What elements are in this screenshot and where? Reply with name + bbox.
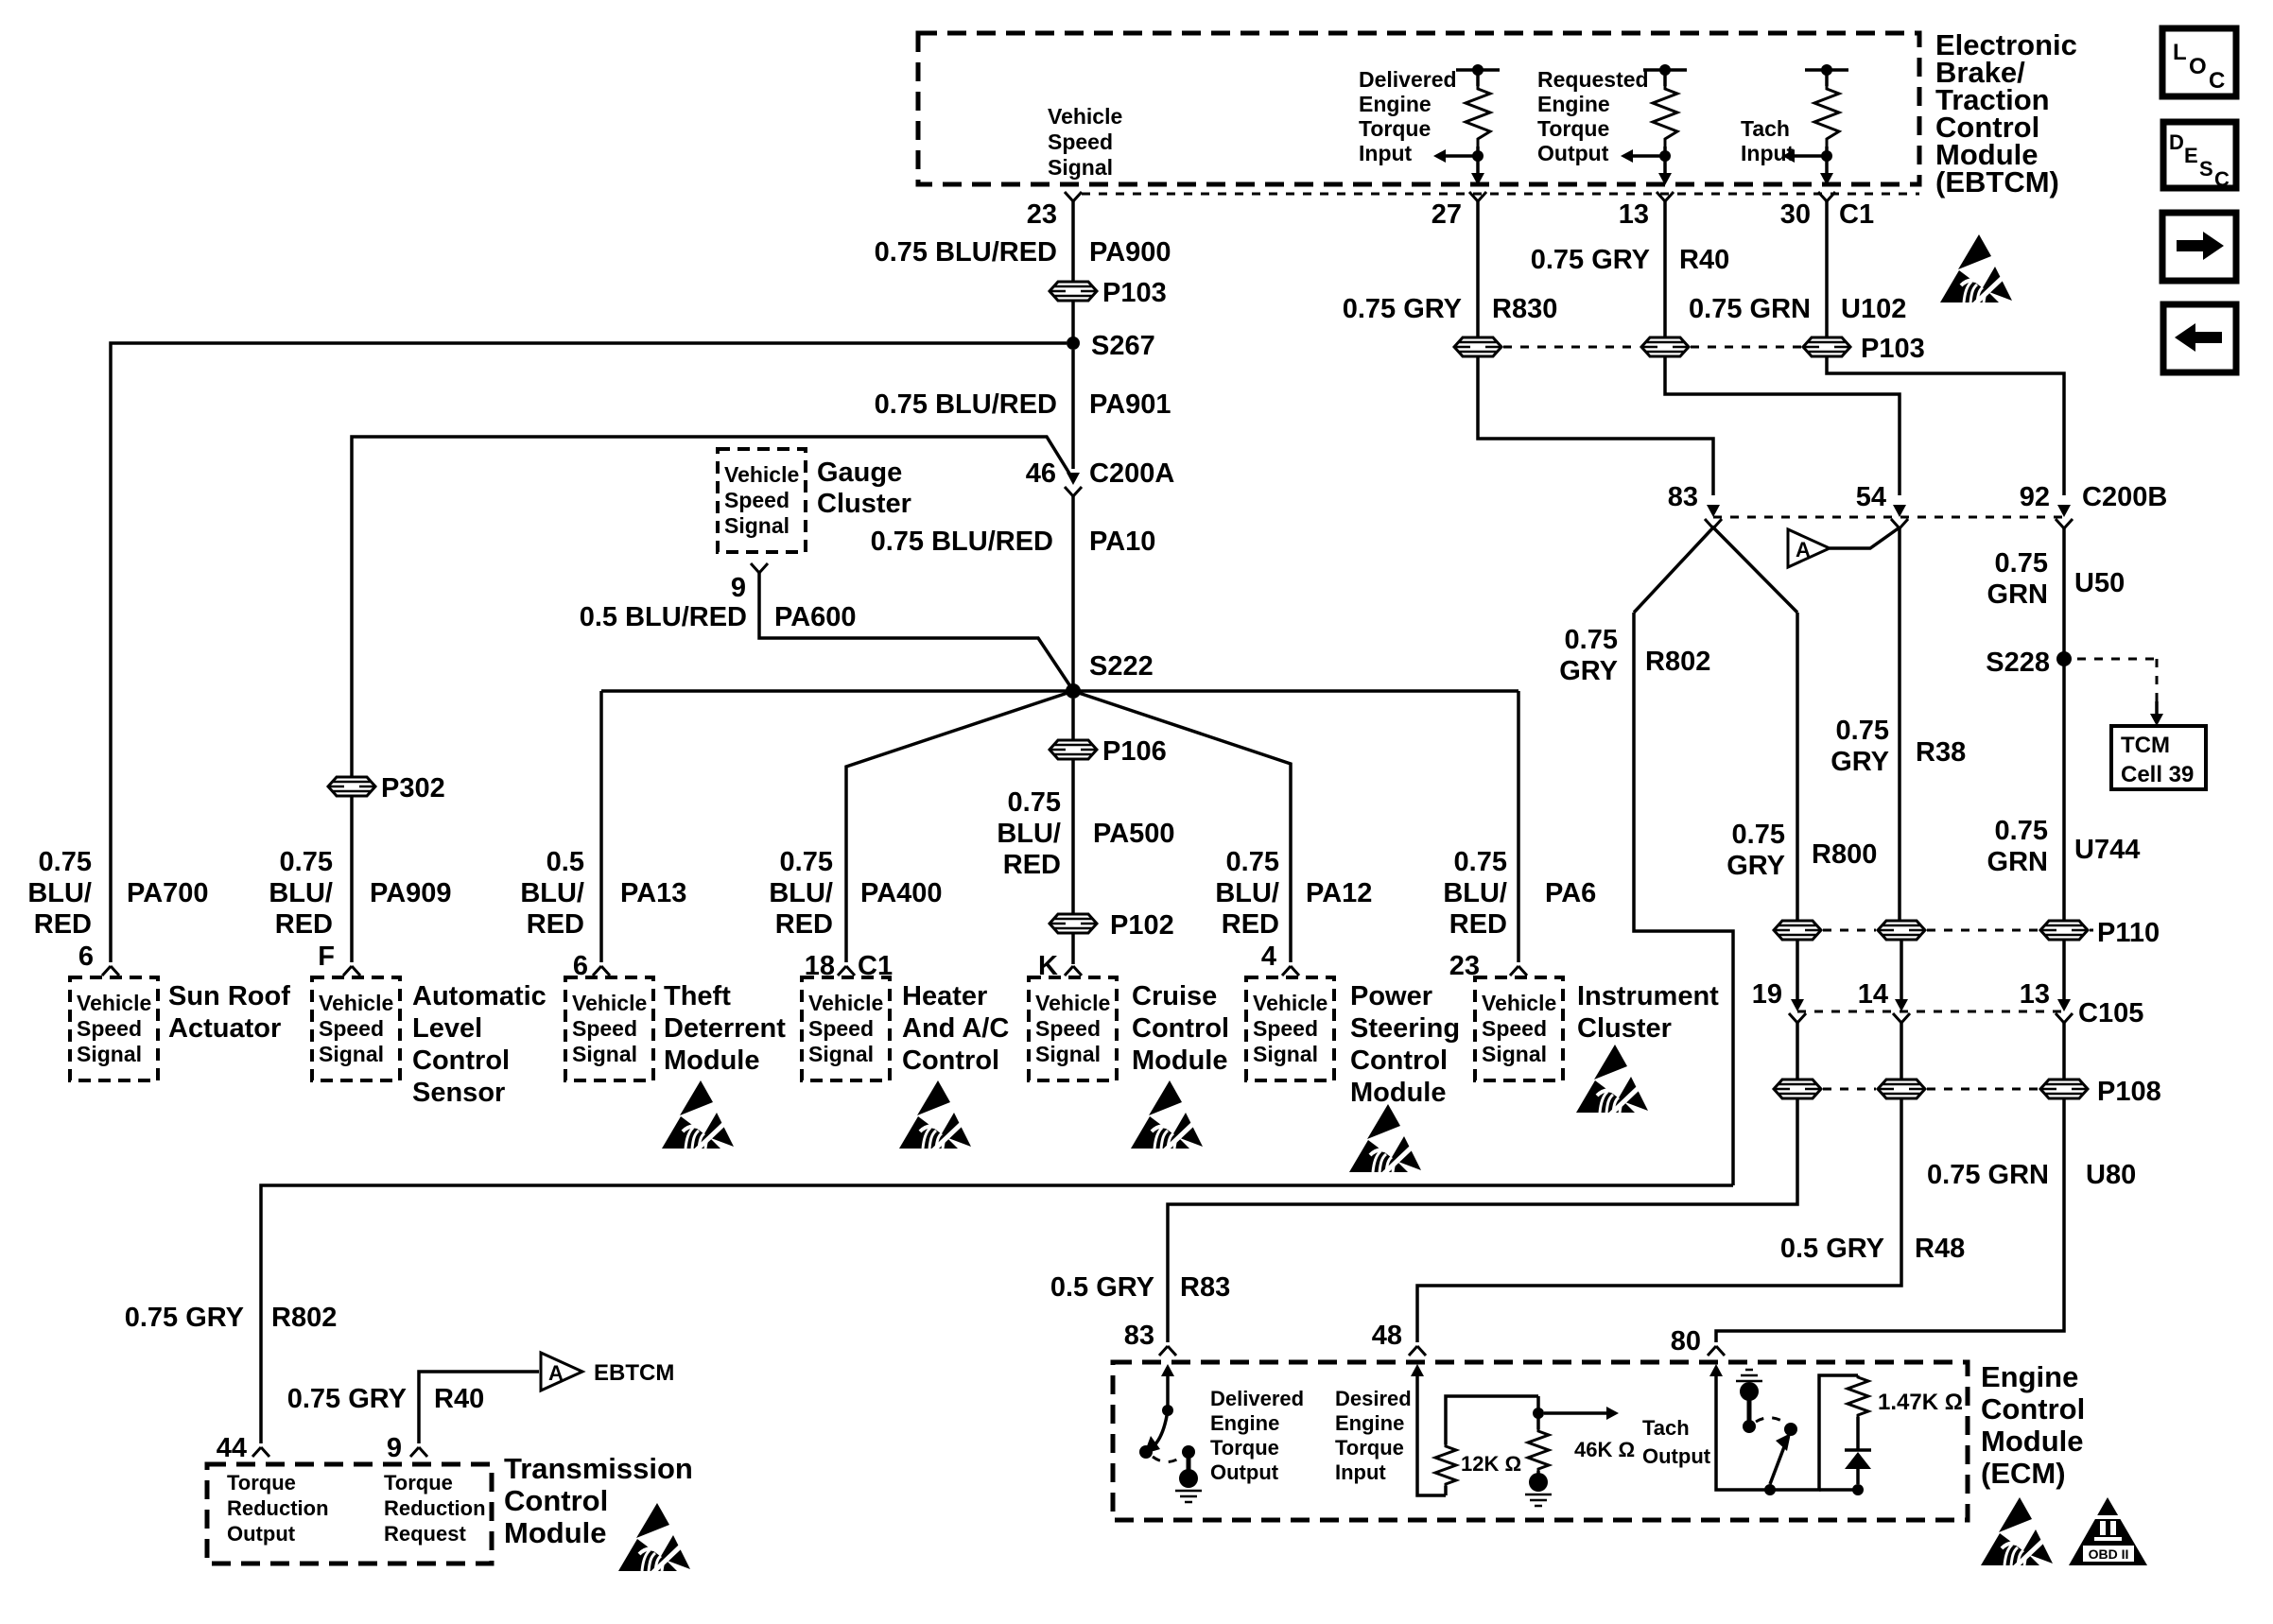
module box theft deterrent vss bbox=[565, 977, 653, 1080]
svg-text:R40: R40 bbox=[434, 1384, 484, 1414]
label Heater And A/C Control bbox=[902, 981, 1009, 1076]
pin 6 sun roof bbox=[78, 942, 119, 976]
svg-text:0.75 GRN: 0.75 GRN bbox=[1689, 294, 1811, 324]
resistor 12K (ECM internal) bbox=[1435, 1396, 1538, 1495]
ESD symbol cruise control bbox=[1131, 1080, 1203, 1152]
label 0.75 GRN U102 bbox=[1689, 294, 1906, 324]
svg-text:48: 48 bbox=[1372, 1321, 1402, 1351]
svg-text:Delivered: Delivered bbox=[1210, 1387, 1304, 1410]
svg-text:Output: Output bbox=[227, 1522, 296, 1546]
label 0.75 GRY R800 bbox=[1726, 820, 1877, 881]
label 0.75 GRY R802 (left) bbox=[125, 1303, 338, 1333]
label Automatic Level Control Sensor bbox=[412, 981, 547, 1108]
svg-text:PA600: PA600 bbox=[774, 602, 857, 632]
label 0.75 BLU/RED PA6 bbox=[1443, 847, 1596, 940]
label Cruise Control Module bbox=[1132, 981, 1229, 1076]
svg-text:Transmission: Transmission bbox=[504, 1452, 693, 1485]
svg-text:P110: P110 bbox=[2097, 918, 2160, 948]
svg-text:D: D bbox=[2169, 130, 2184, 154]
svg-text:P102: P102 bbox=[1110, 910, 1174, 941]
svg-text:80: 80 bbox=[1671, 1326, 1701, 1356]
svg-text:PA900: PA900 bbox=[1089, 237, 1171, 268]
svg-text:Engine: Engine bbox=[1335, 1411, 1404, 1435]
svg-text:9: 9 bbox=[731, 573, 746, 603]
label Power Steering Control Module bbox=[1350, 981, 1460, 1108]
svg-text:12K Ω: 12K Ω bbox=[1461, 1452, 1521, 1476]
icon box arrow left bbox=[2163, 304, 2236, 372]
svg-text:P103: P103 bbox=[1861, 334, 1925, 364]
module box heater vss bbox=[802, 977, 890, 1080]
label 0.75 BLU/RED PA12 bbox=[1215, 847, 1372, 940]
svg-text:44: 44 bbox=[217, 1433, 247, 1463]
svg-text:0.75 GRY: 0.75 GRY bbox=[287, 1384, 407, 1414]
svg-text:46K Ω: 46K Ω bbox=[1574, 1438, 1635, 1461]
wire R38 vertical bbox=[1898, 527, 1901, 921]
svg-text:0.5: 0.5 bbox=[547, 847, 584, 877]
label Desired Engine Torque Input (ECM) bbox=[1335, 1387, 1412, 1484]
label Tach Output bbox=[1642, 1416, 1711, 1468]
svg-text:Theft: Theft bbox=[664, 981, 731, 1011]
module box gauge cluster vss bbox=[718, 449, 806, 552]
svg-text:PA400: PA400 bbox=[860, 878, 943, 908]
svg-text:PA909: PA909 bbox=[370, 878, 452, 908]
svg-text:PA700: PA700 bbox=[127, 878, 209, 908]
svg-text:Instrument: Instrument bbox=[1577, 981, 1719, 1011]
label 0.75 GRN U80 bbox=[1927, 1160, 2136, 1190]
svg-text:Cluster: Cluster bbox=[1577, 1013, 1672, 1044]
svg-text:RED: RED bbox=[34, 909, 92, 940]
wire PA400 to heater bbox=[846, 691, 1073, 962]
svg-text:S267: S267 bbox=[1091, 331, 1155, 361]
label Delivered Engine Torque Input bbox=[1359, 67, 1457, 165]
label 0.75 BLU/RED PA400 bbox=[769, 847, 942, 940]
ESD symbol ECM bbox=[1981, 1497, 2053, 1569]
svg-text:F: F bbox=[318, 942, 335, 972]
label 0.75 BLU/RED PA909 bbox=[269, 847, 451, 940]
svg-text:C: C bbox=[2209, 68, 2225, 94]
svg-text:0.75: 0.75 bbox=[39, 847, 92, 877]
svg-text:0.75 GRN: 0.75 GRN bbox=[1927, 1160, 2049, 1190]
label 0.5 GRY R48 bbox=[1780, 1234, 1965, 1264]
module box TCM bbox=[207, 1464, 492, 1564]
svg-text:P106: P106 bbox=[1102, 736, 1167, 767]
svg-text:Module: Module bbox=[1350, 1078, 1447, 1108]
arrow desired torque output (ECM internal) bbox=[1544, 1407, 1619, 1420]
connector P110 row bbox=[1774, 918, 2160, 948]
svg-text:E: E bbox=[2184, 144, 2198, 167]
wire R830 to pin 83 C200B bbox=[1478, 356, 1713, 495]
pin 23 C1 bbox=[1027, 192, 1082, 230]
svg-text:P108: P108 bbox=[2097, 1077, 2161, 1107]
icon box LOC bbox=[2162, 28, 2236, 96]
svg-text:S228: S228 bbox=[1986, 648, 2050, 678]
svg-text:U50: U50 bbox=[2074, 568, 2125, 598]
svg-text:Torque: Torque bbox=[1335, 1436, 1404, 1460]
svg-text:BLU/: BLU/ bbox=[1443, 878, 1507, 908]
svg-text:PA13: PA13 bbox=[620, 878, 686, 908]
connector P103 row third bbox=[1803, 334, 1925, 364]
svg-text:0.75 BLU/RED: 0.75 BLU/RED bbox=[875, 389, 1057, 420]
pin 19 C105 bbox=[1752, 979, 1806, 1023]
svg-text:Engine: Engine bbox=[1359, 92, 1431, 116]
svg-text:14: 14 bbox=[1858, 979, 1888, 1010]
svg-text:0.75 BLU/RED: 0.75 BLU/RED bbox=[871, 527, 1053, 557]
svg-text:R38: R38 bbox=[1916, 737, 1966, 768]
svg-text:Heater: Heater bbox=[902, 981, 987, 1011]
svg-text:9: 9 bbox=[387, 1433, 402, 1463]
pin 14 C105 bbox=[1858, 979, 1910, 1023]
pin 27 C1 bbox=[1431, 192, 1486, 230]
svg-text:PA6: PA6 bbox=[1545, 878, 1596, 908]
svg-text:Desired: Desired bbox=[1335, 1387, 1412, 1410]
wire R40 to EBTCM reference bbox=[419, 1372, 539, 1443]
label Theft Deterrent Module bbox=[664, 981, 786, 1076]
svg-text:Sensor: Sensor bbox=[412, 1078, 505, 1108]
svg-text:PA10: PA10 bbox=[1089, 527, 1155, 557]
wire PA900 below P103 bbox=[1071, 301, 1075, 337]
label 0.75 GRY R40 bbox=[1531, 245, 1729, 275]
svg-text:Speed: Speed bbox=[1048, 130, 1113, 154]
ESD symbol EBTCM bbox=[1940, 234, 2012, 306]
svg-text:Control: Control bbox=[412, 1045, 510, 1076]
wire R83 run to ECM pin 83 bbox=[1168, 1098, 1797, 1342]
svg-text:BLU/: BLU/ bbox=[997, 819, 1061, 849]
svg-text:R40: R40 bbox=[1679, 245, 1729, 275]
svg-text:0.75: 0.75 bbox=[1454, 847, 1507, 877]
label Electronic Brake/Traction Control Module (EBTCM) bbox=[1935, 28, 2077, 199]
module box EBTCM (Electronic Brake/Traction Control Module) bbox=[918, 33, 1919, 184]
label Vehicle Speed Signal (EBTCM) bbox=[1048, 104, 1122, 180]
svg-text:Torque: Torque bbox=[227, 1471, 296, 1494]
svg-text:0.75 BLU/RED: 0.75 BLU/RED bbox=[875, 237, 1057, 268]
off-page reference A (to EBTCM) bbox=[1788, 527, 1900, 567]
module box sun roof vss bbox=[70, 977, 158, 1080]
wire R802 vertical bbox=[1634, 613, 1733, 1185]
svg-text:L: L bbox=[2173, 40, 2187, 65]
svg-text:Engine: Engine bbox=[1537, 92, 1610, 116]
pin 23 instrument cluster bbox=[1449, 951, 1527, 981]
svg-text:Steering: Steering bbox=[1350, 1013, 1460, 1044]
wire dashed S228 to TCM reference bbox=[2077, 659, 2163, 726]
svg-text:Input: Input bbox=[1741, 141, 1795, 165]
label 0.75 GRY R830 bbox=[1343, 294, 1558, 324]
svg-text:0.75: 0.75 bbox=[1836, 716, 1889, 746]
svg-text:92: 92 bbox=[2020, 482, 2050, 512]
svg-text:0.75 GRY: 0.75 GRY bbox=[125, 1303, 244, 1333]
pin 80 ECM bbox=[1671, 1326, 1725, 1356]
svg-text:R830: R830 bbox=[1492, 294, 1557, 324]
pin 54 C200B bbox=[1856, 482, 1908, 528]
connector C1 dashed pin line (EBTCM) bbox=[1082, 193, 1919, 196]
label Torque Reduction Request bbox=[384, 1471, 486, 1546]
connector P106 bbox=[1050, 736, 1167, 767]
wire R802 long run to TCM pin 44 bbox=[261, 1185, 1733, 1443]
svg-text:Module: Module bbox=[504, 1516, 607, 1549]
wire R830 upper bbox=[1476, 201, 1480, 337]
svg-text:23: 23 bbox=[1027, 199, 1057, 230]
ESD symbol theft deterrent bbox=[662, 1080, 734, 1152]
svg-text:Gauge: Gauge bbox=[817, 458, 902, 488]
svg-text:0.5 BLU/RED: 0.5 BLU/RED bbox=[580, 602, 747, 632]
pin 18 C1 heater bbox=[805, 951, 893, 981]
wires P110 to C105 bbox=[1797, 940, 2064, 1000]
svg-text:(EBTCM): (EBTCM) bbox=[1935, 165, 2059, 199]
svg-text:Delivered: Delivered bbox=[1359, 67, 1457, 92]
switch tach output (ECM internal) bbox=[1709, 1364, 1858, 1495]
label 0.5 BLU/RED PA13 bbox=[520, 847, 686, 940]
svg-text:GRY: GRY bbox=[1726, 851, 1785, 881]
ESD symbol power steering bbox=[1349, 1104, 1421, 1176]
pin 9 gauge cluster bbox=[731, 563, 768, 603]
pin 83 ECM bbox=[1124, 1321, 1176, 1356]
resistor 1.47K with diode (ECM internal) bbox=[1819, 1375, 1963, 1495]
label Sun Roof Actuator bbox=[168, 981, 290, 1044]
svg-text:P302: P302 bbox=[381, 773, 445, 803]
svg-text:R83: R83 bbox=[1180, 1272, 1230, 1303]
reference box TCM Cell 39 bbox=[2111, 726, 2206, 789]
svg-text:RED: RED bbox=[1449, 909, 1507, 940]
label Gauge Cluster bbox=[817, 458, 911, 519]
wire ECM pin 48 internal bbox=[1411, 1364, 1446, 1495]
svg-text:27: 27 bbox=[1431, 199, 1462, 230]
OBD II symbol bbox=[2069, 1497, 2147, 1565]
svg-text:Module: Module bbox=[1132, 1045, 1228, 1076]
svg-text:BLU/: BLU/ bbox=[269, 878, 333, 908]
svg-text:83: 83 bbox=[1668, 482, 1698, 512]
svg-text:C: C bbox=[2214, 167, 2230, 191]
label 0.75 BLU/RED PA700 bbox=[27, 847, 208, 940]
module box ALC sensor vss bbox=[312, 977, 400, 1080]
svg-text:Reduction: Reduction bbox=[227, 1496, 329, 1520]
svg-text:U744: U744 bbox=[2074, 835, 2140, 865]
svg-text:GRN: GRN bbox=[1987, 579, 2048, 610]
svg-text:Sun Roof: Sun Roof bbox=[168, 981, 290, 1011]
svg-text:GRY: GRY bbox=[1559, 656, 1618, 686]
svg-text:C200A: C200A bbox=[1089, 458, 1174, 489]
svg-text:Signal: Signal bbox=[1048, 155, 1113, 180]
svg-text:PA12: PA12 bbox=[1306, 878, 1372, 908]
pin 6 theft deterrent bbox=[573, 951, 610, 981]
label 0.75 GRN U744 bbox=[1987, 816, 2141, 877]
svg-text:13: 13 bbox=[2020, 979, 2050, 1010]
svg-text:0.75 GRY: 0.75 GRY bbox=[1531, 245, 1650, 275]
resistor delivered torque input (EBTCM internal) bbox=[1433, 64, 1500, 185]
label 0.75 BLU/RED PA10 bbox=[871, 527, 1156, 557]
wire U102 upper bbox=[1825, 201, 1829, 337]
svg-text:R802: R802 bbox=[1645, 647, 1710, 677]
label 0.75 GRY R40 (lower) bbox=[287, 1384, 484, 1414]
svg-text:0.75: 0.75 bbox=[1565, 625, 1618, 655]
svg-text:0.75: 0.75 bbox=[1732, 820, 1785, 850]
svg-text:0.75: 0.75 bbox=[280, 847, 333, 877]
wire PA500 to pin K bbox=[1071, 933, 1075, 964]
svg-text:GRN: GRN bbox=[1987, 847, 2048, 877]
label 0.75 GRN U50 bbox=[1987, 548, 2126, 610]
svg-text:R48: R48 bbox=[1915, 1234, 1965, 1264]
svg-text:Reduction: Reduction bbox=[384, 1496, 486, 1520]
svg-text:13: 13 bbox=[1619, 199, 1649, 230]
svg-text:Deterrent: Deterrent bbox=[664, 1013, 786, 1044]
svg-text:Control: Control bbox=[1350, 1045, 1448, 1076]
wire PA12 to power steering bbox=[1073, 691, 1291, 962]
off-page reference A EBTCM bbox=[541, 1353, 674, 1391]
svg-text:C200B: C200B bbox=[2082, 482, 2167, 512]
svg-text:Control: Control bbox=[504, 1484, 608, 1517]
connector P102 bbox=[1050, 910, 1174, 941]
svg-text:0.75: 0.75 bbox=[780, 847, 833, 877]
splice S228 bbox=[1986, 648, 2072, 678]
pin 9 TCM bbox=[387, 1433, 427, 1463]
svg-text:54: 54 bbox=[1856, 482, 1886, 512]
wire PA909 bbox=[350, 796, 354, 962]
svg-text:R800: R800 bbox=[1812, 839, 1877, 870]
connector C105 dashed line bbox=[1797, 1011, 2064, 1013]
pin 4 power steering bbox=[1261, 942, 1299, 976]
module box power steering vss bbox=[1246, 977, 1334, 1080]
svg-text:RED: RED bbox=[1222, 909, 1279, 940]
wire U102 to pin 92 C200B bbox=[1827, 356, 2064, 495]
pin 13 C105 bbox=[2020, 979, 2144, 1028]
svg-text:U80: U80 bbox=[2086, 1160, 2136, 1190]
svg-text:Actuator: Actuator bbox=[168, 1013, 281, 1044]
label Requested Engine Torque Output bbox=[1537, 67, 1649, 165]
svg-text:0.75: 0.75 bbox=[1995, 548, 2048, 579]
pin F ALC sensor bbox=[318, 942, 360, 976]
svg-text:6: 6 bbox=[78, 942, 94, 972]
wire R800 vertical bbox=[1796, 613, 1799, 921]
svg-text:Torque: Torque bbox=[384, 1471, 453, 1494]
svg-text:RED: RED bbox=[1003, 850, 1061, 880]
svg-text:Engine: Engine bbox=[1981, 1360, 2078, 1393]
pin K cruise control bbox=[1038, 951, 1082, 981]
svg-text:RED: RED bbox=[527, 909, 584, 940]
svg-text:Vehicle: Vehicle bbox=[1048, 104, 1122, 129]
connector C200B dashed line bbox=[1713, 516, 2064, 519]
label 0.75 BLU/RED PA500 bbox=[997, 787, 1174, 880]
svg-text:Tach: Tach bbox=[1741, 116, 1790, 141]
svg-text:And A/C: And A/C bbox=[902, 1013, 1009, 1044]
svg-text:Level: Level bbox=[412, 1013, 482, 1044]
svg-text:Input: Input bbox=[1359, 141, 1413, 165]
wire R48 run to ECM pin 48 bbox=[1417, 1098, 1901, 1342]
module box instrument cluster vss bbox=[1475, 977, 1563, 1080]
label 0.75 GRY R38 bbox=[1831, 716, 1966, 777]
svg-text:Torque: Torque bbox=[1537, 116, 1609, 141]
label 0.5 GRY R83 bbox=[1050, 1272, 1230, 1303]
pin 83 C200B bbox=[1668, 482, 1722, 528]
label Engine Control Module (ECM) bbox=[1981, 1360, 2085, 1490]
svg-text:BLU/: BLU/ bbox=[520, 878, 584, 908]
label Tach Input bbox=[1741, 116, 1795, 165]
wire PA10 bbox=[1071, 496, 1075, 685]
svg-text:PA901: PA901 bbox=[1089, 389, 1171, 420]
svg-text:RED: RED bbox=[775, 909, 833, 940]
splice S267 bbox=[1067, 331, 1155, 361]
wire PA500 bbox=[1071, 699, 1075, 740]
svg-text:Module: Module bbox=[1981, 1425, 2084, 1458]
svg-text:Engine: Engine bbox=[1210, 1411, 1279, 1435]
svg-text:4: 4 bbox=[1261, 942, 1276, 972]
svg-text:30: 30 bbox=[1780, 199, 1811, 230]
ESD symbol TCM bbox=[618, 1503, 690, 1575]
svg-text:Torque: Torque bbox=[1210, 1436, 1279, 1460]
svg-text:BLU/: BLU/ bbox=[1215, 878, 1279, 908]
connector P108 row bbox=[1774, 1077, 2161, 1107]
connector P103 (main) bbox=[1050, 278, 1167, 308]
svg-text:Module: Module bbox=[664, 1045, 760, 1076]
wire PA900 bbox=[1071, 201, 1075, 282]
label Torque Reduction Output bbox=[227, 1471, 329, 1546]
svg-text:Output: Output bbox=[1210, 1460, 1279, 1484]
svg-text:Cruise: Cruise bbox=[1132, 981, 1217, 1011]
svg-text:C1: C1 bbox=[1839, 199, 1874, 230]
svg-text:Torque: Torque bbox=[1359, 116, 1431, 141]
svg-text:Requested: Requested bbox=[1537, 67, 1649, 92]
wire U80 run to ECM pin 80 bbox=[1716, 1098, 2064, 1342]
ESD symbol instrument cluster bbox=[1576, 1045, 1648, 1116]
svg-text:Automatic: Automatic bbox=[412, 981, 547, 1011]
module box ECM bbox=[1113, 1362, 1968, 1520]
svg-text:RED: RED bbox=[275, 909, 333, 940]
svg-text:U102: U102 bbox=[1841, 294, 1906, 324]
label Instrument Cluster bbox=[1577, 981, 1719, 1044]
wire PA600 bbox=[759, 573, 1072, 689]
ESD symbol heater bbox=[899, 1080, 971, 1152]
connector C200A pin 46 bbox=[1026, 458, 1175, 496]
svg-text:0.5 GRY: 0.5 GRY bbox=[1780, 1234, 1884, 1264]
svg-text:1.47K Ω: 1.47K Ω bbox=[1878, 1390, 1963, 1415]
svg-text:BLU/: BLU/ bbox=[27, 878, 92, 908]
wire C200A branch to ALC sensor bbox=[352, 437, 1071, 777]
svg-text:46: 46 bbox=[1026, 458, 1056, 489]
resistor tach input (EBTCM internal) bbox=[1782, 64, 1848, 185]
svg-text:0.75 GRY: 0.75 GRY bbox=[1343, 294, 1462, 324]
svg-text:Cluster: Cluster bbox=[817, 489, 911, 519]
resistor 46K (ECM internal) bbox=[1525, 1396, 1635, 1506]
svg-text:0.75: 0.75 bbox=[1226, 847, 1279, 877]
wire U50 vertical bbox=[2062, 527, 2066, 652]
svg-text:(ECM): (ECM) bbox=[1981, 1457, 2066, 1490]
svg-text:R802: R802 bbox=[271, 1303, 337, 1333]
wire U744 vertical bbox=[2062, 665, 2066, 921]
switch delivered engine torque output (ECM internal) bbox=[1139, 1364, 1202, 1502]
splice S222 bbox=[1066, 651, 1154, 699]
wire PA500 mid bbox=[1071, 759, 1075, 914]
svg-text:C105: C105 bbox=[2078, 998, 2143, 1028]
svg-text:Output: Output bbox=[1642, 1444, 1711, 1468]
svg-text:0.5 GRY: 0.5 GRY bbox=[1050, 1272, 1154, 1303]
svg-text:Request: Request bbox=[384, 1522, 466, 1546]
wire fork pin83 to R802 and R800 bbox=[1634, 527, 1797, 613]
label 0.75 BLU/RED PA900 bbox=[875, 237, 1171, 268]
module box cruise control vss bbox=[1029, 977, 1117, 1080]
svg-text:Control: Control bbox=[902, 1045, 999, 1076]
wire dashed P103 row link bbox=[1503, 346, 1801, 349]
svg-text:19: 19 bbox=[1752, 979, 1782, 1010]
svg-text:Control: Control bbox=[1981, 1392, 2085, 1425]
connector P103 row first bbox=[1454, 337, 1501, 356]
svg-text:0.75: 0.75 bbox=[1995, 816, 2048, 846]
label Delivered Engine Torque Output (ECM) bbox=[1210, 1387, 1304, 1484]
svg-text:P103: P103 bbox=[1102, 278, 1167, 308]
wire PA13 to theft deterrent bbox=[599, 691, 603, 962]
icon box arrow right bbox=[2162, 213, 2236, 281]
svg-text:Cell 39: Cell 39 bbox=[2121, 762, 2194, 787]
svg-text:O: O bbox=[2189, 54, 2207, 79]
svg-text:S222: S222 bbox=[1089, 651, 1154, 682]
connector P103 row second bbox=[1641, 337, 1689, 356]
svg-text:Control: Control bbox=[1132, 1013, 1229, 1044]
